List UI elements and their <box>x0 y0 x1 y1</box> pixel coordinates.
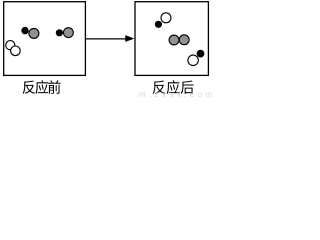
label char 反 (right label) <box>153 81 165 94</box>
molecule 5 (right box): gray atom left <box>169 35 179 45</box>
molecule 4 (right box): white atom <box>161 13 171 23</box>
molecule 6 (right box): black atom <box>197 50 205 58</box>
molecule 4 (right box): black atom <box>155 21 162 28</box>
molecule 1 (left box): gray atom <box>29 28 39 38</box>
molecule 1 (left box): black atom <box>21 27 28 34</box>
label char 应 (right label) <box>167 80 180 94</box>
label char 后 (right label) <box>181 81 194 94</box>
right container box (after reaction) <box>135 2 208 76</box>
molecule 3 (left box): white atom upper-left <box>6 41 15 50</box>
reaction arrow head <box>125 35 134 42</box>
label char 反 (left label) <box>23 81 35 94</box>
molecule 3 (left box): white atom lower-right <box>11 46 21 56</box>
molecule 2 (left box): black atom <box>56 29 63 36</box>
label char 前 (left label) <box>48 80 60 94</box>
molecule 6 (right box): white atom <box>188 55 199 66</box>
left container box (before reaction) <box>4 2 86 76</box>
molecule 2 (left box): gray atom <box>63 28 73 38</box>
label char 应 (left label) <box>35 80 48 94</box>
molecule 5 (right box): gray atom right <box>179 35 189 45</box>
reaction arrow shaft <box>86 38 127 40</box>
